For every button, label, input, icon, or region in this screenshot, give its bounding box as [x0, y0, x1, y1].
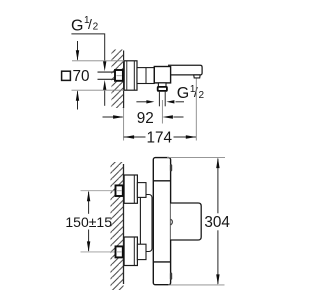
wall surface line (top view) — [123, 164, 125, 284]
dimension 70: top extension line — [72, 60, 124, 62]
centerline dash inside nut — [117, 75, 122, 77]
clip mark upper on body edge — [170, 164, 172, 171]
svg-text:150±15: 150±15 — [65, 214, 112, 230]
bottom connection neck — [137, 244, 146, 259]
dimension 174: dim line left segment — [124, 136, 146, 138]
neck/nut divider line — [145, 68, 147, 84]
leader arrowhead pointing up at pipe bottom edge — [103, 80, 106, 90]
temperature mark arc on body — [171, 219, 173, 225]
square symbol of dimension 70 — [62, 71, 71, 80]
centerline of bottom inlet — [81, 251, 123, 253]
wall hatching (top view) — [111, 162, 124, 290]
dimension 304: top extension line — [167, 157, 225, 159]
supply pipe behind wall — [98, 71, 116, 73]
body internal line upper — [153, 180, 170, 182]
svg-text:304: 304 — [204, 214, 230, 231]
dimension 150±15: dim line upper segment with up arrow — [88, 192, 90, 214]
outlet label right tail line and left-pointing arrowhead — [176, 101, 185, 103]
outlet centre extension line — [161, 100, 163, 124]
centerline of top inlet — [81, 190, 123, 192]
dimension 150±15: dim line lower segment with down arrow — [88, 230, 90, 251]
bottom escutcheon (top view) — [124, 237, 137, 266]
spout tip extension line down to 174 dim — [195, 79, 197, 141]
top escutcheon (top view) — [124, 175, 137, 203]
dimension 304: dim line lower segment with down arrow — [217, 230, 219, 284]
outlet pipe lines — [158, 91, 160, 106]
outlet label left line and right-pointing arrowhead — [136, 101, 147, 103]
wall hatching (side view) — [112, 50, 124, 109]
bottom in-wall union centre dash — [117, 251, 122, 253]
thermostat body (side view) — [154, 67, 170, 83]
back manifold between inlets — [140, 195, 152, 252]
wall surface extension line down to dimension lines — [123, 108, 125, 141]
svg-text:/: / — [88, 16, 92, 32]
escutcheon plate (side view) — [124, 61, 137, 90]
svg-text:2: 2 — [93, 21, 99, 32]
svg-text:G: G — [71, 18, 83, 35]
dimension 92: left segment with arrow at wall line — [103, 116, 123, 118]
top escutcheon inner line — [133, 175, 135, 203]
escutcheon left face line — [126, 61, 128, 90]
outlet union nut (bold) — [158, 87, 167, 91]
svg-text:92: 92 — [137, 110, 154, 127]
svg-text:G: G — [177, 85, 189, 102]
top connection neck — [137, 183, 146, 198]
dimension 70: upper dim line with down arrow — [77, 41, 79, 60]
dimension 70: lower dim line with up arrow — [77, 91, 79, 109]
dimension 174: left arrowhead pointing left — [124, 135, 135, 138]
aerator under spout tip — [194, 75, 201, 78]
dimension 92: right segment with arrow at outlet centre — [173, 116, 183, 118]
svg-text:2: 2 — [199, 90, 205, 101]
bottom escutcheon inner line — [133, 237, 135, 266]
leader tail below pipe — [104, 90, 106, 106]
spout (side view) — [168, 65, 202, 75]
bottom in-wall union (bold square) — [116, 246, 123, 257]
dimension 304: bottom extension line — [168, 284, 225, 286]
dimension 304: dim line upper segment with up arrow — [217, 159, 219, 214]
in-wall union nut (side view) — [115, 70, 123, 81]
escutcheon inner edge line — [133, 61, 135, 90]
spout (top view) — [171, 203, 202, 240]
wall surface line (side view) — [123, 51, 125, 109]
connection neck and union nut to body — [137, 68, 154, 84]
leader underline for G 1/2 — [71, 34, 104, 62]
clip mark lower on body edge — [170, 273, 172, 280]
dimension 174: dim line right segment — [174, 136, 197, 138]
dimension 174: right arrowhead pointing right — [186, 135, 197, 138]
dimension 70: bottom extension line — [72, 89, 125, 91]
svg-text:174: 174 — [147, 129, 173, 146]
top in-wall union centre dash — [117, 190, 122, 192]
svg-text:70: 70 — [73, 68, 90, 85]
body internal line lower — [153, 261, 170, 263]
leader arrowhead pointing down at pipe top edge — [103, 61, 106, 71]
outlet neck below body — [158, 83, 166, 87]
mixer body (top view) — [153, 158, 170, 285]
top in-wall union (bold square) — [116, 185, 123, 196]
